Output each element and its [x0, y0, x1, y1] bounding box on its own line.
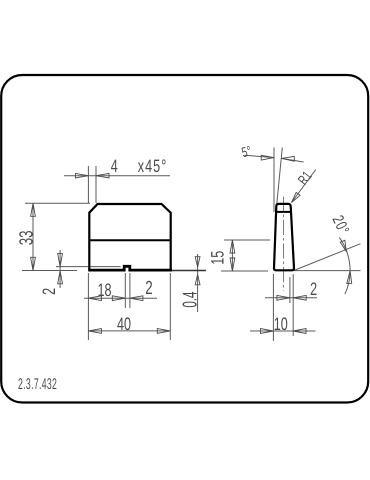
svg-text:5°: 5°: [240, 142, 253, 160]
svg-text:33: 33: [16, 231, 37, 246]
svg-text:2: 2: [145, 278, 152, 299]
svg-text:2: 2: [39, 288, 59, 295]
svg-text:2.3.7.432: 2.3.7.432: [18, 376, 57, 393]
svg-text:15: 15: [207, 251, 227, 265]
svg-text:x45°: x45°: [138, 156, 168, 176]
svg-text:18: 18: [97, 280, 111, 300]
svg-text:40: 40: [117, 314, 131, 334]
svg-text:0.4: 0.4: [179, 292, 201, 308]
svg-text:20°: 20°: [329, 213, 352, 237]
svg-text:R1: R1: [294, 168, 314, 188]
svg-text:2: 2: [310, 279, 317, 299]
svg-text:4: 4: [111, 156, 118, 176]
svg-text:10: 10: [274, 314, 288, 334]
